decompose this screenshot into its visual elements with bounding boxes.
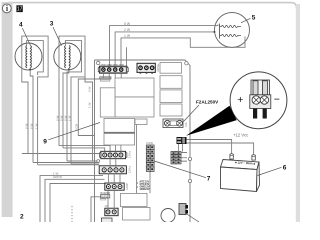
terminal block in bubble: [250, 80, 271, 119]
svg-text:12V: 12V: [105, 205, 110, 208]
bottom rect W1: [121, 193, 148, 206]
svg-text:17: 17: [17, 7, 23, 13]
wire h 175.6 + drop: [40, 176, 103, 222]
X2 side label: [157, 63, 160, 72]
info icon: [2, 4, 11, 13]
svg-text:2 W: 2 W: [24, 123, 28, 129]
strip C side label: [125, 183, 129, 190]
relay Rb: [160, 76, 182, 89]
svg-text:LAMP: LAMP: [125, 183, 129, 190]
rotated wire labels left bundle: [24, 123, 38, 129]
wire h 153.5: [22, 153, 101, 155]
wire w2 top: [115, 32, 215, 66]
left component L1: [100, 88, 115, 117]
page top frame line: [8, 3, 297, 8]
wire loop around lamp 3 outer: [59, 36, 85, 164]
svg-text:230Vac: 230Vac: [157, 63, 160, 72]
connector X2: [137, 63, 155, 74]
bottom rect W2: [123, 208, 151, 221]
fuse F1: [163, 119, 183, 128]
small box S2: [100, 192, 110, 200]
transformer block B1: [115, 78, 154, 97]
wire h 161: [67, 160, 97, 162]
wire h 147.9: [63, 148, 105, 151]
heater 5: [215, 13, 250, 48]
relay Rc: [160, 90, 182, 103]
wire loop around lamp 3 inner: [65, 41, 81, 161]
block B4: [135, 119, 147, 125]
svg-text:3: 3: [50, 21, 54, 28]
svg-text:2 W: 2 W: [124, 28, 131, 32]
rotated wire labels mid bundle: [55, 115, 78, 131]
strip C: [105, 183, 124, 190]
board hole left edge: [97, 160, 100, 163]
wire lamp4 coil bottom: [30, 69, 33, 163]
buzzer: [161, 209, 175, 223]
strip B side label: [128, 165, 132, 173]
board hole right edge lower: [188, 179, 191, 182]
svg-text:12Vcc: 12Vcc: [128, 165, 132, 173]
strip A side label: [128, 150, 132, 158]
svg-text:CONN: CONN: [146, 142, 153, 145]
board hole top-left: [97, 61, 100, 64]
transformer block B2: [115, 97, 154, 117]
H2 side dashes: [181, 153, 187, 162]
figure number 17: [16, 5, 22, 12]
wire w3 top: [121, 37, 245, 67]
wire to S1: [78, 79, 99, 136]
svg-text:+: +: [237, 94, 243, 106]
svg-text:GRON: GRON: [53, 175, 62, 179]
text block H3: [140, 180, 150, 191]
svg-text:5: 5: [252, 15, 256, 22]
wire lamp3 right jog into board: [85, 77, 93, 161]
svg-text:6: 6: [283, 165, 287, 172]
jumper S1: [100, 77, 111, 81]
wire loop around lamp 4 inner: [27, 41, 44, 75]
GC leader: [186, 214, 199, 223]
wire h 179.3 + drop: [45, 179, 105, 222]
wire lamp3 coil bottom: [63, 69, 69, 148]
svg-text:7: 7: [207, 176, 211, 183]
wires B3 bottom to strip A: [116, 145, 121, 151]
svg-text:5 W: 5 W: [30, 123, 34, 129]
wire h 145.6: [59, 146, 110, 152]
svg-text:9: 9: [43, 139, 47, 146]
wire w4 top: [126, 47, 128, 66]
BC down to H2: [179, 144, 183, 152]
svg-text:+12 Vcc: +12 Vcc: [233, 132, 248, 137]
block B3: [104, 119, 135, 146]
svg-text:−: −: [274, 94, 280, 106]
svg-text:12Vcc: 12Vcc: [128, 150, 132, 158]
black connector BC: [177, 137, 187, 144]
header H1: [146, 145, 154, 171]
wire h 162.5: [33, 162, 99, 164]
lamp 4: [15, 43, 42, 70]
board hole top-right: [185, 62, 188, 65]
relay Ra: [160, 63, 182, 74]
svg-text:5 W: 5 W: [124, 22, 131, 26]
lamp 3: [54, 43, 81, 70]
wire h 163.9: [71, 163, 99, 165]
svg-text:1 W: 1 W: [68, 115, 72, 121]
X1 pin stubs down: [103, 73, 121, 78]
board outline: [95, 60, 191, 222]
svg-text:2: 2: [20, 214, 24, 221]
svg-text:F2AL250V: F2AL250V: [196, 99, 219, 104]
wire H1 down to W1: [149, 172, 151, 194]
svg-text:6 W: 6 W: [87, 86, 91, 92]
dotted cable mark: [71, 206, 73, 222]
header H2: [171, 152, 181, 164]
bottom cut connector: [102, 218, 113, 223]
relay Rd: [160, 104, 182, 116]
wire loop around lamp 4 outer: [22, 36, 48, 165]
fuse leader: [184, 105, 200, 122]
long vertical wire x136.5: [136, 125, 138, 194]
magnifier bubble: [230, 72, 287, 129]
svg-text:1 W: 1 W: [87, 102, 91, 108]
gray connector GC: [179, 204, 188, 215]
svg-text:230V 230V 230V 230V: 230V 230V 230V 230V: [100, 64, 124, 67]
magnifier wedge: [186, 106, 237, 136]
svg-text:4: 4: [19, 22, 23, 29]
strip D: [105, 205, 119, 216]
wire h 164.8: [38, 164, 100, 166]
connector X1: [98, 66, 128, 73]
strip A: [100, 151, 127, 158]
svg-text:GND24V: GND24V: [140, 188, 150, 191]
fuse side label: [185, 122, 188, 127]
wire w1 top: [110, 25, 219, 67]
strip B: [99, 166, 126, 174]
battery 6: [221, 154, 260, 192]
svg-text:1 W: 1 W: [124, 34, 131, 38]
board hole right edge upper: [188, 157, 191, 160]
inter-strip wires: [108, 159, 120, 210]
svg-text:BUZZER: BUZZER: [101, 192, 111, 195]
battery wires: [187, 140, 232, 155]
svg-text:F2A: F2A: [185, 122, 188, 127]
svg-text:1 W: 1 W: [34, 123, 38, 129]
page right edge band: [296, 4, 300, 222]
wire to S2 from bottom: [91, 197, 101, 222]
wire h 183.5 + drop: [50, 184, 105, 223]
left sidebar: [2, 2, 13, 217]
